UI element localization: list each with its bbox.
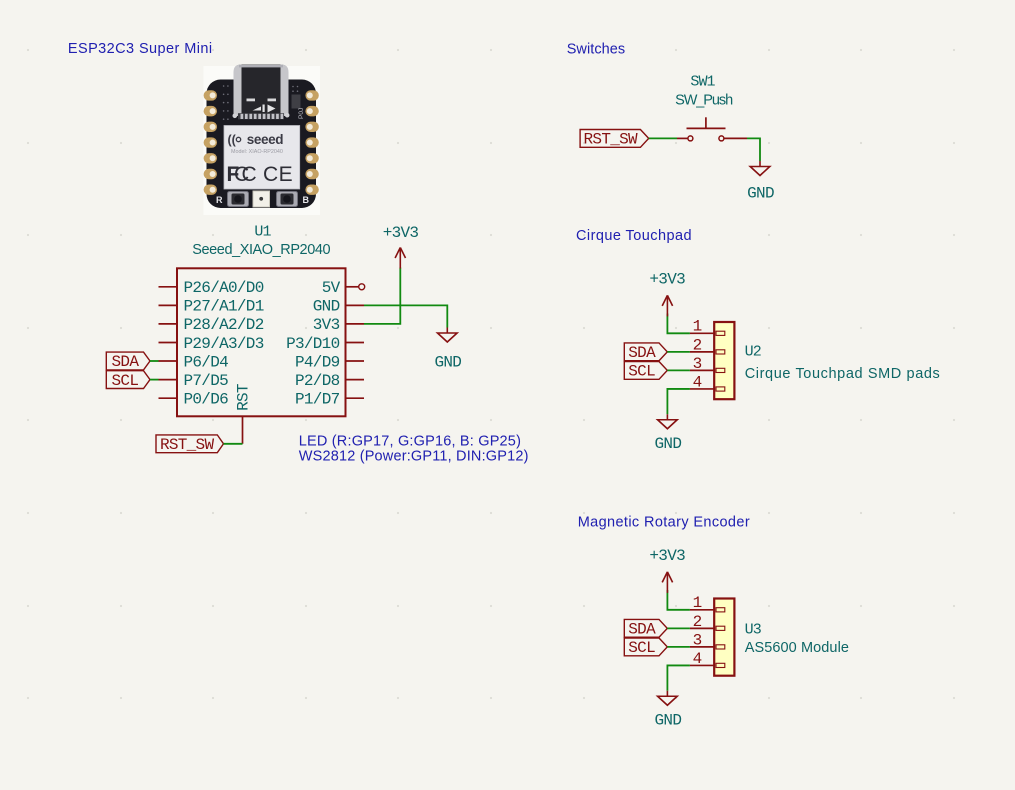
wire SW1 pin 2 to ground xyxy=(747,138,760,161)
wire pin 4 of U2 to ground xyxy=(667,389,690,414)
svg-text:U3: U3 xyxy=(745,622,762,639)
svg-text:((: (( xyxy=(228,133,237,147)
pin 1 of U2 xyxy=(690,318,714,336)
pin P6/D4 of U1 (left) xyxy=(159,353,229,371)
svg-text:2: 2 xyxy=(693,613,702,631)
pin 3 of U2 xyxy=(690,355,714,373)
svg-text:B: B xyxy=(303,195,310,205)
pin 3 of U3 xyxy=(690,631,714,649)
svg-text:U1: U1 xyxy=(254,224,271,241)
global label RST_SW at U1 xyxy=(156,435,224,454)
svg-text:P0/D6: P0/D6 xyxy=(184,391,229,409)
svg-text:RST_SW: RST_SW xyxy=(584,131,639,149)
svg-text:SDA: SDA xyxy=(628,344,656,362)
ground GND at U1 xyxy=(434,328,461,372)
global label SCL at U2 xyxy=(624,362,667,381)
wire GND pin to ground xyxy=(364,305,447,327)
svg-text:RST: RST xyxy=(234,384,252,411)
ground GND at SW1 xyxy=(747,161,774,203)
wire +3V3 to pin 1 of U3 xyxy=(667,590,690,610)
wire pin 4 of U3 to ground xyxy=(667,665,690,690)
wire RST_SW label to RST pin xyxy=(224,443,243,445)
svg-text:+3V3: +3V3 xyxy=(649,547,685,565)
svg-text:ESP32C3 Super Mini: ESP32C3 Super Mini xyxy=(68,41,213,57)
svg-text:P26/A0/D0: P26/A0/D0 xyxy=(184,279,264,297)
pin P28/A2/D2 of U1 (left) xyxy=(159,316,264,334)
svg-text:1: 1 xyxy=(693,594,702,612)
svg-text:CE: CE xyxy=(263,163,293,186)
IC U1 body xyxy=(177,268,346,416)
svg-text:1: 1 xyxy=(693,318,702,336)
pin 2 of U2 xyxy=(690,336,714,354)
wire 3V3 pin to +3V3 xyxy=(364,268,400,324)
svg-text:seeed: seeed xyxy=(247,132,283,147)
wire SCL label to pin P7/D5 xyxy=(150,379,159,381)
svg-text:P4/D9: P4/D9 xyxy=(295,353,340,371)
svg-text:+3V3: +3V3 xyxy=(649,271,685,289)
svg-text:P27/A1/D1: P27/A1/D1 xyxy=(184,298,264,316)
pin 1 of U3 xyxy=(690,594,714,612)
svg-text:P28/A2/D2: P28/A2/D2 xyxy=(184,316,264,334)
wire +3V3 to pin 1 of U2 xyxy=(667,314,690,334)
wire RST_SW label to SW1 pin 1 xyxy=(649,137,677,139)
pin P4/D9 of U1 (right) xyxy=(295,353,364,371)
wire SCL label to pin 3 of U3 xyxy=(667,646,690,648)
svg-text:AS5600 Module: AS5600 Module xyxy=(745,640,849,656)
svg-text:GND: GND xyxy=(434,354,461,372)
svg-text:Cirque Touchpad SMD pads: Cirque Touchpad SMD pads xyxy=(745,366,941,382)
connector U3 body xyxy=(714,599,734,676)
power +3V3 at U2 xyxy=(649,271,685,317)
pin P3/D10 of U1 (right) xyxy=(286,335,364,353)
svg-text:5V: 5V xyxy=(322,279,341,297)
svg-text:P3/D10: P3/D10 xyxy=(286,335,340,353)
pin P0/D6 of U1 (left) xyxy=(159,391,229,409)
wire SCL label to pin 3 of U2 xyxy=(667,369,690,371)
pin RST of U1 (bottom) xyxy=(234,384,252,444)
svg-text:SW1: SW1 xyxy=(690,74,715,91)
svg-text:3: 3 xyxy=(693,631,702,649)
svg-text:SCL: SCL xyxy=(628,639,655,657)
svg-text:Model: XIAO-RP2040: Model: XIAO-RP2040 xyxy=(231,149,283,155)
svg-text:R: R xyxy=(216,195,223,205)
ground GND at U3 xyxy=(655,691,682,730)
svg-text:Seeed_XIAO_RP2040: Seeed_XIAO_RP2040 xyxy=(192,242,330,258)
svg-text:SCL: SCL xyxy=(112,372,139,390)
pin P1/D7 of U1 (right) xyxy=(295,391,364,409)
pin P29/A3/D3 of U1 (left) xyxy=(159,335,264,353)
global label SCL at U1 xyxy=(106,371,150,390)
svg-text:P1/D7: P1/D7 xyxy=(295,391,340,409)
global label SDA at U1 xyxy=(106,352,150,371)
svg-text:SW_Push: SW_Push xyxy=(675,92,733,108)
wire SDA label to pin 2 of U3 xyxy=(667,627,690,629)
svg-text:GND: GND xyxy=(655,712,682,730)
svg-text:GND: GND xyxy=(747,185,774,203)
pin P2/D8 of U1 (right) xyxy=(295,372,364,390)
global label RST_SW at SW1 xyxy=(580,130,649,149)
pin GND of U1 (right) xyxy=(313,298,364,316)
svg-text:Cirque Touchpad: Cirque Touchpad xyxy=(576,228,692,244)
pin 4 of U3 xyxy=(690,650,714,668)
pin P27/A1/D1 of U1 (left) xyxy=(159,298,264,316)
svg-text:P2/D8: P2/D8 xyxy=(295,372,340,390)
svg-text:C: C xyxy=(242,163,257,186)
svg-text:3V3: 3V3 xyxy=(313,316,340,334)
svg-text:3: 3 xyxy=(693,355,702,373)
global label SCL at U3 xyxy=(624,638,667,657)
ground GND at U2 xyxy=(655,414,682,453)
pin 4 of U2 xyxy=(690,373,714,391)
svg-text:P0J: P0J xyxy=(298,108,305,119)
wire SDA label to pin P6/D4 xyxy=(150,360,159,362)
svg-text:SDA: SDA xyxy=(628,621,656,639)
pin 3V3 of U1 (right) xyxy=(313,316,364,334)
wire SDA label to pin 2 of U2 xyxy=(667,351,690,353)
global label SDA at U3 xyxy=(624,619,667,638)
global label SDA at U2 xyxy=(624,343,667,362)
svg-text:GND: GND xyxy=(313,298,340,316)
pin P7/D5 of U1 (left) xyxy=(159,372,229,390)
pin P26/A0/D0 of U1 (left) xyxy=(159,279,264,297)
svg-text:SDA: SDA xyxy=(112,353,140,371)
svg-text:Magnetic Rotary Encoder: Magnetic Rotary Encoder xyxy=(578,515,750,531)
switch SW1 body xyxy=(677,117,747,141)
svg-text:SCL: SCL xyxy=(628,363,655,381)
svg-text:RST_SW: RST_SW xyxy=(160,436,215,454)
svg-text:U2: U2 xyxy=(745,344,761,361)
svg-text:GND: GND xyxy=(655,435,682,453)
connector U2 body xyxy=(714,322,734,399)
svg-text:4: 4 xyxy=(693,373,702,391)
svg-text:Switches: Switches xyxy=(567,42,626,58)
svg-text:2: 2 xyxy=(693,336,702,354)
svg-text:P6/D4: P6/D4 xyxy=(184,353,229,371)
svg-text:+3V3: +3V3 xyxy=(383,224,419,242)
svg-text:WS2812 (Power:GP11, DIN:GP12): WS2812 (Power:GP11, DIN:GP12) xyxy=(299,448,529,464)
svg-text:4: 4 xyxy=(693,650,702,668)
svg-text:P7/D5: P7/D5 xyxy=(184,372,229,390)
svg-text:LED (R:GP17, G:GP16, B: GP25): LED (R:GP17, G:GP16, B: GP25) xyxy=(299,433,521,449)
pin 2 of U3 xyxy=(690,613,714,631)
power +3V3 at U3 xyxy=(649,547,685,593)
photo of Seeed XIAO RP2040 board xyxy=(204,65,321,216)
power +3V3 at U1 xyxy=(383,224,419,268)
svg-text:P29/A3/D3: P29/A3/D3 xyxy=(184,335,264,353)
pin 5V of U1 (right) xyxy=(322,279,365,297)
